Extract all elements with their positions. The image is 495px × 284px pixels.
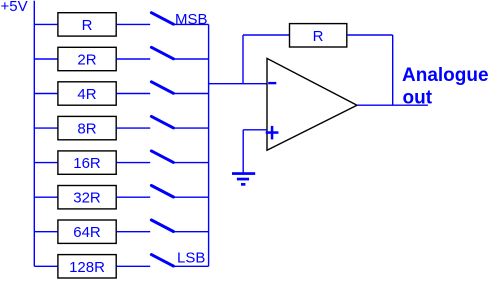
- wire: resistor R2 to switch SW2: [116, 58, 150, 60]
- svg-text:64R: 64R: [73, 224, 101, 241]
- wire: bus stub to resistor R1: [34, 23, 58, 25]
- wire: bus stub to resistor R7: [34, 231, 58, 233]
- resistor R2 value 2R: [58, 47, 116, 70]
- ground symbol: [232, 172, 255, 186]
- svg-text:128R: 128R: [69, 259, 105, 276]
- svg-text:8R: 8R: [77, 121, 96, 138]
- wire: switch SW1 to summing bus: [174, 23, 209, 25]
- switch SW2: [151, 47, 173, 59]
- wire: switch SW4 to summing bus: [174, 127, 209, 129]
- label Analogue out: [402, 65, 489, 108]
- resistor R6 value 32R: [58, 186, 116, 209]
- svg-text:MSB: MSB: [175, 11, 208, 28]
- switch SW6: [151, 186, 173, 198]
- svg-text:R: R: [313, 28, 324, 45]
- wire: resistor R5 to switch SW5: [116, 162, 150, 164]
- svg-text:2R: 2R: [77, 52, 96, 69]
- op-amp U1 inverting (-) pin mark: [268, 82, 276, 84]
- svg-text:+5V: +5V: [1, 0, 28, 15]
- svg-text:4R: 4R: [77, 86, 96, 103]
- switch SW4: [151, 116, 173, 128]
- wire: resistor R3 to switch SW3: [116, 93, 150, 95]
- wire: switch SW8 to summing bus: [174, 265, 209, 267]
- wire: resistor R6 to switch SW6: [116, 196, 150, 198]
- svg-text:16R: 16R: [73, 155, 101, 172]
- resistor R1 value R (MSB branch): [58, 13, 116, 36]
- wire: feedback top-left horizontal to resistor Rf: [243, 34, 290, 36]
- wire: resistor R1 to switch SW1: [116, 23, 150, 25]
- wire: switch SW6 to summing bus: [174, 196, 209, 198]
- wire: summing bus (right vertical): [208, 24, 210, 266]
- wire: summing bus to op-amp inverting input: [209, 83, 267, 85]
- wire: resistor Rf to right feedback corner: [347, 34, 393, 36]
- svg-text:LSB: LSB: [177, 249, 205, 266]
- svg-text:Analogue: Analogue: [402, 65, 489, 86]
- wire: resistor R7 to switch SW7: [116, 231, 150, 233]
- svg-text:R: R: [82, 17, 93, 34]
- resistor R8 value 128R (LSB branch): [58, 255, 116, 278]
- wire: feedback right vertical down to output: [392, 35, 394, 105]
- wire: feedback left vertical (node at inverting input): [242, 35, 244, 84]
- resistor R3 value 4R: [58, 82, 116, 105]
- wire: switch SW7 to summing bus: [174, 231, 209, 233]
- resistor Rf value R (feedback): [290, 24, 347, 47]
- wire: resistor R4 to switch SW4: [116, 127, 150, 129]
- switch SW8 (LSB bit): [151, 255, 173, 267]
- resistor R5 value 16R: [58, 151, 116, 174]
- svg-text:out: out: [403, 87, 433, 108]
- svg-text:32R: 32R: [73, 190, 101, 207]
- wire: resistor R8 to switch SW8: [116, 265, 150, 267]
- wire: bus stub to resistor R6: [34, 196, 58, 198]
- wire: +5V left bus (vertical): [33, 1, 35, 267]
- wire: non-inverting input horizontal: [243, 129, 267, 131]
- wire: bus stub to resistor R5: [34, 162, 58, 164]
- wire: bus stub to resistor R4: [34, 127, 58, 129]
- switch SW1 (MSB bit): [151, 13, 173, 25]
- switch SW5: [151, 151, 173, 163]
- resistor R4 value 8R: [58, 116, 116, 139]
- op-amp U1: [266, 58, 357, 150]
- resistor R7 value 64R: [58, 220, 116, 243]
- wire: switch SW5 to summing bus: [174, 162, 209, 164]
- wire: bus stub to resistor R3: [34, 93, 58, 95]
- switch SW7: [151, 220, 173, 232]
- wire: bus stub to resistor R8: [34, 265, 58, 267]
- wire: bus stub to resistor R2: [34, 58, 58, 60]
- wire: switch SW3 to summing bus: [174, 93, 209, 95]
- op-amp U1 non-inverting (+) pin mark: [266, 131, 279, 134]
- wire: switch SW2 to summing bus: [174, 58, 209, 60]
- wire: non-inverting input down to ground: [242, 130, 244, 174]
- switch SW3: [151, 82, 173, 94]
- wire: op-amp output to Analogue out: [357, 104, 428, 106]
